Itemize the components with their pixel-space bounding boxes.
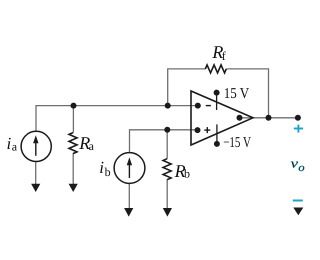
wire: ia source bottom vertical [35,161,37,184]
wire: feedback right vertical [268,69,270,118]
svg-text:o: o [298,162,305,174]
ground arrow below ia [31,184,40,192]
wire: feedback top right segment [226,68,269,70]
current source ia arrow [35,142,37,156]
node dot: ib / Rb junction [164,127,170,133]
node dot: ia / Ra junction [71,103,77,109]
+15V supply dot [214,90,220,96]
svg-text:a: a [12,139,18,153]
op-amp U1 triangle [191,91,253,145]
svg-text:15 V: 15 V [224,86,250,102]
ground arrow below Ra [69,184,78,192]
node dot: output / feedback junction [266,115,272,121]
wire: ib source top vertical [129,129,131,152]
op-amp plus sign [204,129,210,131]
wire: ib source bottom vertical [128,184,130,209]
ground arrow below output terminal [293,208,303,216]
op-amp noninverting input terminal dot [195,127,201,133]
svg-text:v: v [291,155,299,170]
wire: output horizontal [240,117,299,119]
wire: Rb top vertical [166,130,168,159]
ground arrow below ib [124,208,133,217]
wire: ia source top vertical [35,105,37,132]
wire: Ra top vertical [72,106,74,133]
svg-text:i: i [99,158,104,177]
resistor Rf (feedback, horizontal zigzag) [205,65,226,73]
wire: Ra bottom vertical [72,153,74,184]
resistor Ra (vertical zigzag) [69,133,77,154]
op-amp inverting input terminal dot [195,103,201,109]
wire: Rb bottom vertical [166,179,168,208]
op-amp minus sign [206,105,211,107]
current source ib arrow [128,164,130,178]
svg-text:f: f [222,49,226,63]
wire: feedback left vertical [167,69,169,106]
output minus polarity mark (cyan) [293,200,303,202]
ground arrow below Rb [163,208,172,217]
node dot: output terminal [295,115,301,121]
op-amp output terminal dot (inside triangle) [237,115,243,121]
wire: feedback top left segment [167,68,205,70]
svg-text:b: b [184,167,190,181]
svg-text:−15 V: −15 V [223,135,251,151]
+15V supply stub [216,94,218,110]
-15V supply stub [216,124,218,142]
current source ib (circle) [114,153,145,184]
-15V supply dot [214,141,220,147]
node dot: feedback / inverting input junction [165,103,171,109]
svg-text:a: a [89,139,95,153]
wire: noninverting-input net (second horizontal) [130,129,198,131]
current source ia (circle) [21,131,51,161]
resistor Rb (vertical zigzag) [163,159,171,180]
wire: inverting-input net (top horizontal) [36,105,198,107]
svg-text:b: b [105,165,111,179]
output plus polarity mark (cyan) [294,128,303,130]
